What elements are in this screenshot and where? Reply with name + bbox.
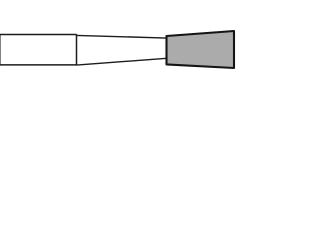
shank rectangle [0,35,76,65]
dental bur profile drawing [0,0,280,100]
shank/neck divider [76,34,78,65]
neck taper top line [77,35,167,38]
head trapezoid [167,31,235,68]
neck taper bottom line [77,58,167,65]
